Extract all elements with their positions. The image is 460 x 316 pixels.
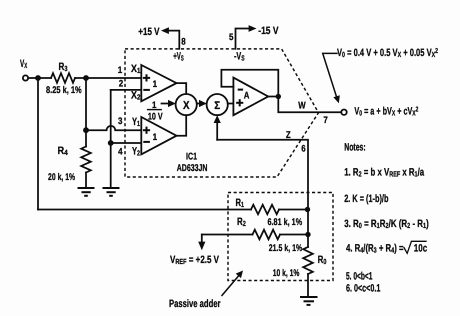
- wire X2 Y2 vertical to ground: [110, 90, 112, 188]
- svg-text:1: 1: [153, 78, 157, 89]
- wire feedback loop around A: [221, 70, 278, 97]
- node Vx input terminal: [23, 75, 28, 80]
- wire VREF feed to R2: [202, 234, 253, 236]
- ground symbol under R4: [78, 188, 95, 196]
- svg-text:V0 = 0.4 V + 0.5 VX + 0.05 VX2: V0 = 0.4 V + 0.5 VX + 0.05 VX2: [337, 46, 438, 59]
- svg-text:Notes:: Notes:: [344, 141, 365, 153]
- node junction dot R3 output: [83, 75, 89, 81]
- wire pin 4: [111, 142, 142, 144]
- wire Vx branch down to passive adder: [37, 78, 39, 210]
- svg-text:7: 7: [323, 114, 327, 125]
- multiplier circle U1 core: [176, 94, 197, 115]
- wire pin 8 supply with arrow to +15V: [161, 27, 179, 49]
- annotation pointer elbow and arrow to pin 7: [323, 53, 340, 103]
- wire Vx feed to R1: [38, 209, 251, 211]
- arrow VREF source pointer: [198, 235, 205, 251]
- wire pin 3 with hop over crossing: [86, 126, 141, 130]
- svg-text:1: 1: [152, 99, 156, 110]
- arrow multiplier to summer: [197, 100, 207, 107]
- wire W output to pin 7: [278, 97, 341, 113]
- wire X buffer output to multiplier: [177, 83, 187, 94]
- IC1 boundary dashed outline: [125, 49, 319, 177]
- svg-text:8.25 k, 1%: 8.25 k, 1%: [46, 85, 82, 96]
- wire R4 to ground: [85, 173, 87, 189]
- svg-text:5. 0<b<1: 5. 0<b<1: [346, 270, 372, 282]
- svg-text:6.81 k, 1%: 6.81 k, 1%: [268, 217, 303, 228]
- resistor R1: [251, 205, 279, 215]
- resistor R0: [303, 247, 313, 274]
- passive adder dashed box: [228, 193, 333, 281]
- svg-text:+15 V: +15 V: [138, 26, 159, 38]
- wire pin 2: [111, 89, 142, 91]
- svg-text:Passive adder: Passive adder: [169, 298, 220, 310]
- svg-text:IC1: IC1: [186, 151, 197, 162]
- svg-text:1: 1: [153, 131, 157, 142]
- node junction dot pin 4 branch: [108, 140, 114, 146]
- svg-text:V0 = a + bVX + cVX2: V0 = a + bVX + cVX2: [354, 104, 418, 117]
- Y buffer plus sign: [143, 127, 150, 134]
- ground symbol under R0: [300, 297, 318, 305]
- X buffer minus sign: [143, 89, 150, 91]
- wire Vx terminal to R3: [28, 77, 51, 79]
- wire summing node down to R0: [307, 210, 309, 248]
- A minus sign: [238, 89, 243, 91]
- op-amp Y input buffer: [141, 117, 176, 154]
- svg-text:10c: 10c: [414, 243, 427, 255]
- svg-text:-15 V: -15 V: [258, 25, 278, 37]
- svg-text:6. 0<c<0.1: 6. 0<c<0.1: [346, 282, 380, 294]
- wire pin 5 supply with arrow to -15V: [236, 25, 257, 49]
- arrow scale factor into multiplier: [162, 100, 176, 107]
- wire R3 node down to R4: [85, 78, 87, 147]
- svg-text:4: 4: [118, 146, 123, 157]
- svg-text:10 k, 1%: 10 k, 1%: [273, 268, 300, 279]
- node junction dot Vx branch: [35, 75, 41, 81]
- node pin 7 output terminal: [341, 110, 346, 115]
- summer sigma circle: [207, 94, 228, 115]
- resistor R2: [253, 230, 281, 240]
- wire R3 to pin 1: [75, 77, 141, 79]
- svg-text:8: 8: [181, 35, 185, 46]
- wire A output: [268, 96, 278, 98]
- svg-text:2: 2: [119, 78, 123, 89]
- ground symbol under X2 Y2 line: [103, 188, 120, 196]
- svg-text:3: 3: [118, 115, 122, 126]
- arrow passive adder label pointer: [222, 271, 243, 296]
- op-amp X input buffer: [141, 65, 176, 101]
- svg-text:20 k, 1%: 20 k, 1%: [48, 172, 76, 183]
- wire R0 to ground: [307, 274, 309, 297]
- op-amp A output amplifier: [233, 78, 268, 116]
- svg-text:Σ: Σ: [214, 100, 220, 112]
- Y buffer minus sign: [143, 141, 150, 143]
- svg-text:10 V: 10 V: [148, 111, 163, 122]
- wire Z horizontal run to pin 6: [217, 140, 308, 210]
- svg-text:6: 6: [301, 143, 305, 154]
- wire Y buffer output to multiplier: [177, 115, 187, 136]
- svg-text:21.5 k, 1%: 21.5 k, 1%: [269, 243, 303, 254]
- svg-text:W: W: [298, 101, 306, 112]
- X buffer plus sign: [143, 74, 150, 81]
- node junction dot R1 summing: [305, 207, 310, 212]
- svg-text:Z: Z: [286, 130, 291, 141]
- wire summer to op-amp A: [228, 103, 234, 105]
- resistor R3: [51, 73, 75, 83]
- svg-text:AD633JN: AD633JN: [177, 163, 208, 174]
- node junction dot R2 summing: [305, 232, 310, 237]
- svg-text:2. K = (1-b)/b: 2. K = (1-b)/b: [344, 193, 389, 205]
- svg-text:A: A: [244, 91, 250, 102]
- node output dot of A: [276, 94, 281, 99]
- svg-text:1. R2 = b x VREF x R1/a: 1. R2 = b x VREF x R1/a: [344, 166, 424, 178]
- scale factor fraction bar: [148, 109, 162, 111]
- svg-text:X: X: [183, 100, 190, 112]
- resistor R4: [81, 147, 91, 173]
- wire R2 to summing node: [280, 234, 308, 236]
- svg-text:5: 5: [229, 31, 233, 42]
- svg-text:1: 1: [118, 64, 122, 75]
- arrow Z input into summer: [214, 115, 221, 140]
- node junction dot pin 3 branch: [83, 127, 89, 133]
- A plus sign: [236, 99, 243, 106]
- wire R1 to summing node: [279, 209, 308, 211]
- note 4 radical sign: [404, 241, 426, 253]
